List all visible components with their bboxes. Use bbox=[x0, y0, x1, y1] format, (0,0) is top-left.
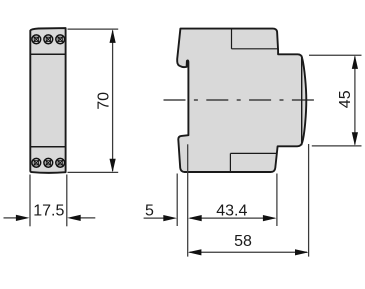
side view terminal cover edge vertical bbox=[231, 29, 233, 49]
dimension 70 arrow down bbox=[110, 159, 116, 173]
dimension 43.4 arrow right bbox=[263, 215, 277, 221]
dimension 5 arrow bbox=[163, 215, 177, 221]
dimension 43.4 line bbox=[190, 217, 275, 219]
front view body bbox=[30, 28, 65, 173]
front view top terminal separator bbox=[31, 53, 66, 55]
svg-text:5: 5 bbox=[145, 203, 154, 220]
dimension 17.5 line right tail bbox=[79, 217, 95, 219]
screw terminals top row bbox=[32, 35, 65, 44]
svg-text:58: 58 bbox=[234, 233, 252, 250]
dimension 5 extension line right (shared with 58) bbox=[187, 144, 189, 256]
side view front-face edge line bbox=[301, 56, 303, 146]
front view bottom terminal separator bbox=[31, 146, 66, 148]
dimension 17.5 extension line left bbox=[29, 175, 31, 227]
dimension 58 arrow left bbox=[188, 249, 202, 255]
dimension 58 arrow right bbox=[295, 249, 309, 255]
dimension 43.4 extension line right bbox=[276, 174, 278, 227]
dimension 17.5 line left tail bbox=[4, 217, 18, 219]
dimension 17.5 arrow right bbox=[67, 215, 81, 221]
dimension 45 extension line bottom bbox=[312, 145, 362, 147]
dimension 70 line bbox=[112, 31, 114, 172]
dimension 70 arrow up bbox=[110, 29, 116, 43]
side view terminal cover edge horizontal bbox=[232, 48, 278, 50]
screw terminals bottom row bbox=[32, 158, 65, 167]
dimension 45 extension line top bbox=[309, 54, 362, 56]
side view bottom terminal divider vertical bbox=[229, 153, 231, 171]
dimension 45 arrow down bbox=[352, 132, 358, 146]
dimension 58 line bbox=[190, 251, 308, 253]
dimension 45 arrow up bbox=[352, 55, 358, 69]
dimension 58 extension line right bbox=[308, 144, 310, 257]
svg-text:70: 70 bbox=[96, 92, 113, 110]
dimension 70 extension line top bbox=[68, 28, 119, 30]
svg-text:43.4: 43.4 bbox=[216, 203, 247, 220]
dimension 17.5 arrow left bbox=[16, 215, 30, 221]
svg-text:45: 45 bbox=[337, 90, 354, 108]
svg-text:17.5: 17.5 bbox=[33, 203, 64, 220]
side view bottom terminal line horizontal bbox=[230, 152, 277, 154]
dimension 5 extension line left bbox=[176, 174, 178, 227]
dimension 5 line tail bbox=[144, 217, 165, 219]
dimension 17.5 extension line right bbox=[66, 175, 68, 227]
center line dash-dot bbox=[164, 99, 316, 101]
side view body outline bbox=[177, 29, 306, 172]
dimension 43.4 arrow left bbox=[188, 215, 202, 221]
dimension 45 line bbox=[354, 57, 356, 145]
dimension 70 extension line bottom bbox=[68, 171, 119, 173]
